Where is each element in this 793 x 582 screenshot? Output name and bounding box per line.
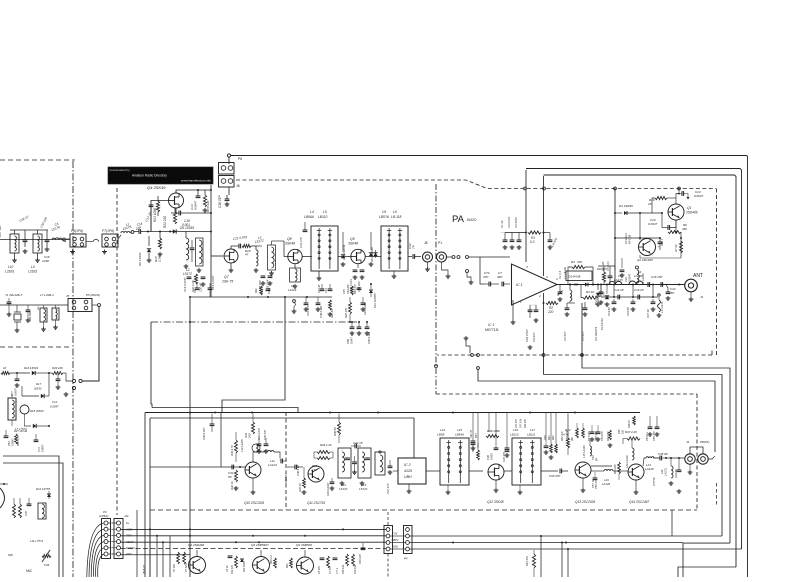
svg-text:R7 22: R7 22 — [674, 244, 678, 252]
inductor L22 — [660, 457, 673, 485]
diode D18 1S533 — [24, 409, 50, 428]
capacitor C14 2P — [614, 288, 624, 299]
svg-text:C25: C25 — [343, 289, 346, 294]
svg-text:L5172: L5172 — [183, 272, 192, 276]
node entry ring — [62, 238, 66, 242]
capacitor C29 cluster — [361, 297, 367, 315]
coupling caps — [447, 256, 510, 285]
svg-text:Q2 2SD466: Q2 2SD466 — [188, 543, 204, 547]
svg-text:0.0047: 0.0047 — [42, 444, 45, 452]
diode D3 1S2473 — [594, 284, 600, 342]
capacitor C52 C53 — [648, 416, 660, 436]
wire dashed vertical x697 — [696, 394, 698, 509]
svg-text:R42: R42 — [552, 435, 555, 440]
node feed tap — [543, 187, 546, 190]
svg-text:C38: C38 — [24, 511, 28, 516]
svg-text:5P: 5P — [596, 458, 599, 461]
inductor L9 tank — [28, 230, 42, 274]
capacitor C21 0.0047 — [620, 258, 632, 282]
svg-text:C27 12P: C27 12P — [0, 225, 2, 237]
svg-text:M57713L: M57713L — [485, 328, 499, 332]
svg-text:C13 6P: C13 6P — [607, 307, 611, 316]
wire PA out LPF — [600, 284, 685, 286]
inductor L19 inter — [591, 470, 628, 487]
resistor R36 2.2K — [314, 443, 333, 460]
wire x190 drop — [189, 297, 191, 577]
svg-text:0.3: 0.3 — [530, 240, 535, 244]
svg-text:C26 100: C26 100 — [347, 284, 350, 294]
transformer T2 — [268, 241, 285, 275]
svg-text:C17 2P: C17 2P — [646, 309, 650, 318]
wire left entry — [0, 239, 70, 241]
capacitor C48b — [502, 450, 509, 462]
connector J8 — [423, 241, 433, 271]
wire Q10 input — [150, 466, 246, 468]
capacitor C7 30P — [497, 271, 510, 286]
transistor Q10 2SC2026 — [244, 462, 264, 505]
components right of Q13 — [591, 472, 597, 488]
svg-text:R29 470: R29 470 — [354, 284, 357, 294]
svg-text:C42 1P: C42 1P — [353, 441, 363, 445]
svg-text:C8 47P: C8 47P — [532, 333, 536, 342]
capacitor C38 6P — [653, 452, 668, 460]
resistor R44 100 — [614, 462, 620, 480]
wire x151 drop — [151, 322, 152, 408]
svg-text:100: 100 — [622, 429, 625, 434]
svg-text:+: + — [658, 245, 660, 249]
svg-text:4126: 4126 — [404, 469, 412, 473]
wire dash-dot left boundary — [72, 161, 74, 577]
wire y374 bias — [544, 375, 723, 537]
svg-text:2.2K: 2.2K — [158, 255, 162, 263]
wire XB8V bus — [121, 541, 387, 543]
wire emitter bus — [640, 255, 681, 258]
label L7 — [15, 427, 27, 431]
wire IC1 pin4 — [543, 233, 545, 277]
inductor AF choke — [30, 503, 46, 543]
svg-text:C48 0.047: C48 0.047 — [202, 427, 206, 440]
capacitor C26 0.001b — [365, 321, 371, 344]
svg-text:PA: PA — [452, 214, 465, 225]
capacitor C15 8P — [626, 299, 635, 316]
svg-text:R34: R34 — [244, 433, 248, 438]
svg-text:C31 47P: C31 47P — [299, 237, 303, 248]
node feed tap — [614, 187, 617, 190]
capacitor C31 5P — [228, 465, 241, 479]
node pin ring2 — [131, 231, 134, 234]
svg-text:(00: (00 — [571, 437, 574, 441]
wire Q4 gate — [151, 201, 169, 232]
svg-text:C55 47P: C55 47P — [653, 431, 656, 441]
svg-text:R41: R41 — [548, 435, 551, 440]
wire AF route1 — [3, 456, 59, 577]
resistor R15 470 — [525, 550, 536, 577]
wire Q4 top — [176, 189, 211, 193]
svg-text:R49 22K: R49 22K — [52, 366, 63, 370]
inductor L6 L4123 — [288, 264, 301, 292]
IF transformer L12 LB172 — [338, 448, 351, 491]
svg-text:R11 470: R11 470 — [231, 564, 234, 574]
svg-text:UBH: UBH — [404, 475, 412, 479]
transistor Q7 2SK75 — [221, 249, 238, 284]
svg-text:C22: C22 — [261, 289, 264, 294]
svg-text:C5 10: C5 10 — [226, 565, 229, 572]
label C21 0.001 — [233, 235, 248, 241]
svg-text:0.0047: 0.0047 — [194, 200, 198, 210]
labels crystal row — [5, 293, 100, 298]
svg-text:P6: P6 — [238, 157, 242, 161]
svg-text:0.001: 0.001 — [490, 453, 494, 460]
connector P5/J5 — [68, 299, 101, 312]
wire dashed top-left — [0, 159, 75, 161]
svg-text:LB111: LB111 — [527, 433, 536, 437]
inductor coil2 — [52, 305, 59, 329]
filter L6 LB118 — [379, 210, 412, 278]
svg-text:C?5 5P: C?5 5P — [652, 477, 656, 486]
svg-text:J4: J4 — [686, 440, 690, 444]
svg-text:D17: D17 — [36, 382, 42, 386]
svg-text:LB5B: LB5B — [437, 433, 444, 437]
svg-text:L11 L?5?4: L11 L?5?4 — [30, 539, 43, 543]
svg-text:D5 1S553: D5 1S553 — [180, 226, 194, 230]
resistor R47 2.2K — [623, 430, 640, 444]
wire x615 vertical — [614, 189, 616, 285]
diode D4 1SR35 — [614, 204, 663, 215]
svg-text:C? 47P: C? 47P — [329, 566, 332, 574]
wire dashed TX/RX boundary upper — [236, 180, 716, 189]
label credit box — [108, 167, 213, 184]
svg-text:R32 1K: R32 1K — [230, 481, 234, 490]
svg-text:R33 4.7K: R33 4.7K — [230, 445, 234, 456]
filter L16/L17 — [504, 428, 558, 494]
capacitor C42 1P — [351, 441, 363, 448]
inductor L21 LA126 — [643, 457, 660, 471]
svg-text:9+: 9+ — [126, 521, 130, 525]
inductor L3 L5172 — [254, 235, 265, 272]
capacitor C26 0.001 under Q9 — [349, 264, 364, 292]
svg-text:C14 2P: C14 2P — [614, 288, 624, 292]
capacitor C30 tank — [39, 216, 49, 263]
wire receiver bus y418 — [150, 418, 414, 458]
inductor L11 LA123 — [253, 450, 280, 467]
wire Q7 gate — [211, 232, 223, 257]
svg-text:C18 15P: C18 15P — [651, 275, 662, 279]
wire R1 bus — [505, 232, 526, 234]
svg-text:D24 0533: D24 0533 — [243, 561, 246, 572]
svg-text:L4: L4 — [310, 210, 314, 214]
svg-text:C4? 0.04: C4? 0.04 — [520, 418, 523, 428]
resistor R32 1K — [230, 470, 238, 490]
P3 pin labels — [125, 521, 135, 556]
svg-text:Q4 2SK49: Q4 2SK49 — [147, 185, 166, 190]
wire dash-dot y322 — [151, 321, 357, 323]
wire dashed left vertical x117 — [116, 188, 118, 515]
svg-text:LB64A: LB64A — [455, 433, 464, 437]
svg-text:ANT: ANT — [693, 273, 703, 279]
capacitor mid — [352, 456, 357, 474]
svg-text:120P: 120P — [42, 259, 49, 263]
svg-text:J6: J6 — [236, 184, 240, 188]
resistor R39 100K — [486, 429, 501, 438]
svg-text:R50 4.7K: R50 4.7K — [17, 435, 20, 446]
wire AF route2 — [3, 463, 63, 577]
bottom component forest1 — [173, 552, 246, 574]
svg-text:C26 0.001: C26 0.001 — [367, 331, 371, 344]
svg-text:?1 (SH12B-T: ?1 (SH12B-T — [5, 293, 24, 297]
wire x683 drop — [683, 543, 730, 577]
bottom component forest2 — [318, 554, 357, 574]
transistor Q14 2SC2467 — [628, 464, 649, 504]
capacitor C49 5P — [592, 455, 599, 461]
transistor Q9 3SK48 — [348, 237, 365, 264]
capacitor C8 47P — [532, 305, 538, 342]
wire DEMO bus — [121, 548, 387, 550]
svg-text:L15: L15 — [457, 428, 462, 432]
svg-text:C15 8P: C15 8P — [626, 307, 630, 316]
label SW — [8, 553, 33, 573]
connector J2/P4 — [384, 526, 412, 561]
svg-text:L31B1: L31B1 — [28, 270, 37, 274]
svg-text:C6: C6 — [382, 210, 386, 214]
wire IC1 pin1 gnd — [511, 300, 516, 324]
svg-text:C21: C21 — [624, 277, 628, 282]
wire AGC bus — [121, 528, 387, 530]
svg-text:?P B-15: ?P B-15 — [143, 564, 146, 574]
capacitor C22 1 — [658, 238, 664, 250]
node feed tap — [524, 187, 527, 190]
svg-text:R42 470: R42 470 — [561, 431, 564, 441]
svg-text:C16 0TP: C16 0TP — [218, 195, 222, 208]
svg-text:L19 LA105: L19 LA105 — [240, 439, 244, 452]
AF resistors — [13, 498, 22, 518]
svg-text:LB110: LB110 — [510, 433, 519, 437]
svg-text:J11: J11 — [124, 514, 129, 518]
svg-text:D1-HV98: D1-HV98 — [569, 275, 581, 279]
svg-text:Amateur Radio Directory: Amateur Radio Directory — [132, 174, 167, 178]
inductor C4 L5176 coil — [51, 222, 62, 240]
wire Q10 emitter — [251, 478, 256, 494]
diode D2 HV98 box — [566, 271, 592, 281]
transistor Q4 bottom — [286, 543, 314, 574]
resistor R46 100 — [618, 429, 625, 434]
svg-text:C50 47P: C50 47P — [549, 474, 560, 478]
wire x99 down — [82, 307, 99, 382]
svg-text:R3: R3 — [571, 260, 575, 264]
resistor R9 1.2K — [624, 233, 632, 244]
svg-text:C40 21P: C40 21P — [359, 554, 362, 564]
label PA B420 — [452, 214, 477, 225]
svg-text:R9 1.2K: R9 1.2K — [628, 234, 632, 244]
svg-text:downloaded by: downloaded by — [110, 168, 131, 172]
svg-text:L22: L22 — [660, 469, 664, 474]
wire dashed receiver boundary — [150, 509, 697, 511]
wire dashed PA boundary bottom — [437, 354, 712, 356]
wire IC1 pin2 down — [543, 293, 545, 375]
labels right band — [561, 430, 656, 441]
wire dashed PA corner — [711, 351, 713, 356]
svg-text:47P: 47P — [483, 275, 488, 279]
svg-text:DEMO: DEMO — [126, 546, 135, 550]
svg-text:Q9: Q9 — [350, 237, 355, 241]
svg-text:D4 1SR35: D4 1SR35 — [619, 204, 633, 208]
resistor R19 2.2K — [154, 232, 162, 263]
svg-text:7.9V: 7.9V — [392, 532, 398, 536]
svg-text:LB66A: LB66A — [304, 215, 315, 219]
capacitor C5 0.01 — [606, 261, 612, 285]
capacitor C24 0.0047 — [679, 189, 704, 200]
wire dashed inner boundary x286 — [285, 412, 287, 510]
op-amp IC1 M57713 — [485, 264, 557, 332]
P3 fan wires — [87, 523, 104, 577]
connector J1 ANT — [685, 279, 704, 301]
svg-text:IC 2: IC 2 — [404, 463, 411, 467]
wire y381 bias — [477, 367, 715, 452]
resistor R2 220 — [543, 301, 559, 314]
svg-text:R38 68: R38 68 — [333, 427, 337, 436]
wire TRV bus — [121, 535, 387, 537]
connector P1 — [437, 241, 451, 278]
svg-text:LA126: LA126 — [602, 482, 611, 486]
wire x285 route — [222, 296, 286, 413]
svg-text:3SK48: 3SK48 — [285, 242, 295, 246]
wire x582 bias — [581, 303, 730, 543]
components above bus — [194, 283, 377, 308]
svg-text:R22 220: R22 220 — [163, 216, 167, 228]
capacitor C40 — [359, 543, 365, 564]
transistor Q2 bottom — [188, 543, 206, 574]
svg-text:R? 10K: R? 10K — [173, 564, 176, 572]
svg-text:C25 470P: C25 470P — [525, 329, 529, 342]
svg-text:L10: L10 — [8, 265, 14, 269]
capacitor C50 47P — [549, 469, 568, 478]
capacitor C50 47Pb — [595, 479, 598, 489]
capacitor C4 47P — [544, 233, 559, 250]
ANT label — [693, 273, 703, 279]
svg-text:LB-118: LB-118 — [391, 215, 402, 219]
capacitor C27 tank — [0, 215, 29, 254]
diode cluster row1 — [1, 366, 66, 375]
svg-text:Q1: Q1 — [687, 206, 691, 210]
wire second supply line — [526, 169, 742, 550]
svg-text:P1: P1 — [438, 241, 442, 245]
svg-text:D6 1S553: D6 1S553 — [138, 252, 142, 266]
components AF top — [4, 429, 45, 452]
svg-text:0.004: 0.004 — [268, 287, 271, 294]
transistor Q2 2SC945 — [637, 239, 656, 263]
inductor B02 coil — [8, 394, 16, 426]
svg-text:J1: J1 — [700, 295, 704, 299]
capacitor C47 47P — [386, 460, 392, 494]
connector rings pair — [64, 373, 83, 396]
svg-text:R31: R31 — [286, 563, 289, 568]
capacitor C32 TP — [408, 243, 421, 259]
svg-text:C? 470P: C? 470P — [185, 562, 188, 572]
coupling coil T3 — [375, 451, 385, 475]
wire crystal bus — [0, 304, 68, 306]
svg-text:5P: 5P — [228, 475, 232, 479]
resistor R4 1K — [581, 285, 598, 300]
transformer L2 L5172 — [183, 232, 203, 277]
capacitor C31 47P — [299, 222, 307, 248]
svg-text:L3 LA1?6: L3 LA1?6 — [660, 301, 664, 313]
node feed tap2 — [471, 354, 584, 357]
capacitor C46 0.001 — [486, 440, 498, 460]
capacitor C60 0.047 — [346, 321, 354, 344]
bottom verticals — [150, 529, 170, 577]
capacitor C7b 47P — [483, 271, 499, 286]
wire R5 top — [598, 266, 615, 270]
svg-text:220: 220 — [547, 310, 554, 314]
inductor L10 tank — [5, 230, 19, 274]
svg-text:R47 2.2K: R47 2.2K — [625, 430, 638, 434]
wire XB8V bus right — [410, 542, 684, 544]
svg-text:L20 LA126: L20 LA126 — [625, 455, 629, 468]
svg-text:J5: J5 — [66, 294, 70, 298]
capacitor C16 2P — [634, 288, 644, 299]
wire x736 bottom — [678, 567, 736, 577]
svg-text:47: 47 — [245, 253, 249, 257]
resistor R10 1K — [648, 196, 669, 213]
svg-text:R18 100: R18 100 — [342, 564, 345, 574]
svg-text:4.7K: 4.7K — [311, 468, 317, 472]
svg-text:C39 67P: C39 67P — [601, 431, 604, 441]
wire bottom drops — [540, 535, 569, 577]
connector P3 1P6A — [99, 510, 129, 559]
svg-text:C38 6P: C38 6P — [658, 452, 668, 456]
capacitor C39 6P — [674, 457, 681, 493]
wire ANT stub — [121, 554, 191, 556]
svg-text:L31B1: L31B1 — [5, 270, 14, 274]
label Q4 — [147, 185, 166, 190]
wire stub x672 — [671, 510, 673, 536]
capacitor C12 left — [594, 286, 603, 305]
svg-text:R36 2.2K: R36 2.2K — [320, 443, 332, 447]
capacitor C24 cluster — [258, 276, 272, 291]
relay P6 1P6 — [66, 229, 93, 254]
svg-text:L5: L5 — [323, 210, 327, 214]
svg-text:2SD466: 2SD466 — [685, 211, 698, 215]
wire vertical x211 — [210, 185, 215, 297]
svg-text:Q3 2SB546Y: Q3 2SB546Y — [251, 543, 270, 547]
resistor R38 68 — [333, 414, 341, 444]
svg-text:C5 470: C5 470 — [318, 566, 321, 574]
svg-text:C60: C60 — [346, 339, 350, 344]
svg-text:C46: C46 — [44, 563, 50, 567]
svg-text:0.0047: 0.0047 — [50, 405, 59, 409]
wire dash-dot PA left boundary — [435, 184, 438, 394]
wire third supply line — [544, 175, 737, 567]
svg-text:L9: L9 — [31, 265, 35, 269]
resistor R34 100 — [244, 414, 255, 439]
capacitor C61 — [357, 321, 362, 335]
right band parts — [576, 423, 613, 447]
wire dashed lower boundary — [436, 393, 697, 395]
svg-text:C22 1: C22 1 — [660, 238, 664, 246]
transistor Q8 3SK48 — [285, 237, 302, 264]
resistor R37 4.7K — [311, 464, 318, 472]
svg-text:C2 H1G1: C2 H1G1 — [624, 233, 628, 244]
svg-text:30P: 30P — [497, 275, 502, 279]
wire x221 stub — [220, 413, 222, 468]
capacitor C38 AF — [24, 498, 31, 516]
svg-text:R15 470: R15 470 — [525, 556, 529, 566]
transistor Q1 2SD466 — [668, 193, 698, 221]
resistor R6 450 — [668, 220, 687, 238]
svg-text:P7(1P6): P7(1P6) — [102, 229, 114, 233]
wire right outer vertical — [746, 156, 748, 578]
diode D12 pair — [369, 232, 378, 266]
svg-text:LA106: LA106 — [634, 274, 643, 278]
